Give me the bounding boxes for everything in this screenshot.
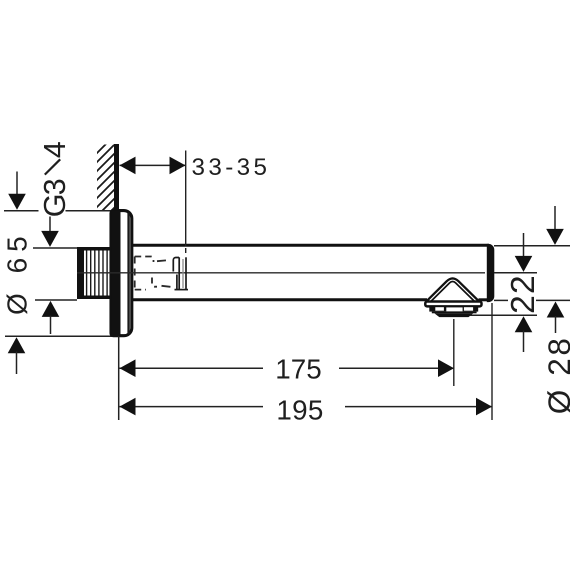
svg-text:Ø 65: Ø 65 [1,230,32,315]
dim Ø28 top arrow [554,206,556,231]
spout body bottom line tip segment [479,298,490,301]
aerator collar [425,302,481,307]
dim Ø65 top arrow [16,172,18,197]
wall hatching [90,128,122,241]
svg-text:175: 175 [275,354,321,385]
aerator bottom cap [434,313,473,317]
dim 175 left arrow [120,359,136,377]
dim Ø28 bottom arrow [547,302,565,318]
spout body top line [131,244,489,247]
dim 33-35 right arrow [170,157,186,175]
aerator dome outer [426,278,479,301]
dim G3/4 bottom extension line [35,299,77,301]
dim Ø65 bottom arrow [8,337,26,353]
dim 33-35 extension line hidden part [185,248,187,256]
svg-text:G: G [38,194,72,218]
dim 195 left arrow [120,398,136,416]
svg-text:33-35: 33-35 [192,154,271,181]
dim G3/4 top extension line [33,247,77,249]
dim 22 bottom arrow [515,316,533,332]
hidden fixing sleeve (solid) [173,257,188,289]
hidden internal connector (dashed) [135,257,172,290]
threaded nipple G3/4 [77,247,112,299]
svg-text:Ø 28: Ø 28 [541,336,570,415]
spout body bottom line [131,298,427,301]
dim 175 right arrow [438,359,454,377]
dim 22 bottom extension line [470,314,537,316]
dim Ø65 top extension line [4,210,39,212]
dim Ø28 bottom extension line [494,299,508,301]
aerator slot band [429,306,478,311]
dim 33-35 left arrow [120,157,136,175]
dim Ø65 bottom extension line [5,335,118,337]
dim 195 line [120,406,264,408]
spout centre line [77,272,485,274]
escutcheon flange [111,210,132,336]
wall extension line below escutcheon [118,336,120,420]
dim Ø28 top extension line [494,245,570,247]
svg-text:22: 22 [505,274,542,314]
dim 33-35 extension line [185,151,187,247]
dim 22 top extension line [494,272,537,274]
aerator dome inner line [431,282,475,302]
svg-text:195: 195 [276,394,323,425]
svg-text:4: 4 [38,141,72,158]
dim G3/4 bottom arrow [42,301,60,317]
dim 175 line [120,367,264,369]
dim 175 extension line below aerator [453,319,455,386]
wall face line [114,144,119,211]
dim 33-35 line [120,164,186,166]
spout end cap [487,244,495,302]
spout end extension line [491,303,493,420]
dim 22 top arrow [523,233,525,257]
aerator lower band [432,312,477,314]
dim 195 right arrow [476,398,492,416]
dim G3/4 top arrow [49,217,51,234]
svg-text:3: 3 [38,178,72,195]
